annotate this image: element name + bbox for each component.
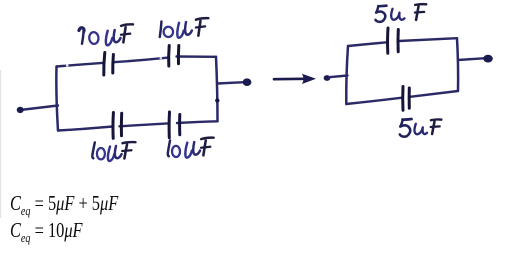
wire: left box top side with capacitor gaps <box>57 63 105 67</box>
node: left terminal dot <box>17 107 24 113</box>
scan edge artifact <box>0 70 1 218</box>
node: right terminal dot of left circuit <box>243 78 252 86</box>
wire: right box top side with capacitor gap <box>348 42 387 46</box>
capacitor C1 (10uF, top-left) plates <box>104 53 114 76</box>
label C2 value 10uF (top-right) <box>159 18 209 38</box>
wire: left box right lead <box>218 82 245 83</box>
label C5 value 5uF (top) <box>376 4 427 22</box>
equation line 2: Ceq = 10uF <box>10 218 83 246</box>
arrow between circuits <box>274 78 304 81</box>
equation line 1: Ceq = 5uF + 5uF <box>10 191 118 219</box>
wire: left box right vertical <box>216 57 218 122</box>
wire: left box bottom side with capacitor gaps <box>58 127 113 131</box>
left circuit: wire left lead <box>20 106 58 111</box>
wire: lead into right box <box>329 76 348 78</box>
wire: right box left vertical <box>346 46 348 104</box>
pen-skip ring before C2 <box>160 57 163 60</box>
label C4 value 10uF (bottom-right) <box>168 138 214 158</box>
node: left terminal dot of right circuit <box>324 75 331 81</box>
capacitor C6 (5uF, bottom) plates <box>403 87 410 111</box>
capacitor C4 (10uF, bottom-right) plates <box>169 112 180 138</box>
node: junction dot on right vertical <box>215 98 219 102</box>
capacitor C5 (5uF, top) plates <box>388 28 399 53</box>
label C3 value 10uF (bottom-left) <box>92 142 135 161</box>
wire: left box left vertical <box>56 67 58 131</box>
node: right terminal dot of right circuit <box>483 55 493 63</box>
capacitor C2 (10uF, top-right) plates <box>169 46 179 67</box>
label C1 value 10uF (top-left) <box>79 24 134 46</box>
pen-skip ring on top wire <box>66 64 69 67</box>
capacitor C3 (10uF, bottom-left) plates <box>113 113 122 139</box>
wire: right box right vertical <box>457 38 458 91</box>
label C6 value 5uF (bottom) <box>400 119 442 137</box>
wire: right box bottom side with capacitor gap <box>346 98 402 104</box>
wire: right box right lead <box>458 58 484 60</box>
